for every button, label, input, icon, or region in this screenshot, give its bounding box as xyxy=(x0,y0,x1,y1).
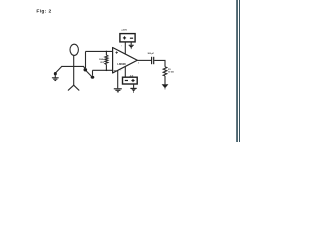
wire: run to op-amp - input xyxy=(93,69,113,71)
svg-text:300 µF: 300 µF xyxy=(147,53,154,55)
battery B2 (-4.5 V) xyxy=(123,77,138,84)
wire: battery B2 to arrow ground xyxy=(133,84,135,88)
wire: V- pin xyxy=(124,67,126,78)
ground (left hand) xyxy=(52,78,59,81)
pin + mark xyxy=(115,51,118,54)
page edge line outer xyxy=(236,0,238,142)
wire: battery B1 to ground xyxy=(130,42,132,45)
svg-text:Fig: 2: Fig: 2 xyxy=(36,9,51,15)
wire: terminal B up to minus run xyxy=(92,70,94,75)
op-amp U1 xyxy=(113,48,138,74)
battery B1 (+4.5 V) xyxy=(120,34,135,42)
wire: top run to op-amp + input xyxy=(86,50,113,52)
electrode terminal B (right hand lower) xyxy=(91,76,95,79)
ground (battery B1) xyxy=(129,44,134,46)
resistor R1 xyxy=(163,67,167,85)
wire: terminal A up xyxy=(85,51,87,68)
person left forearm xyxy=(56,66,62,72)
wire: left terminal to ground xyxy=(54,75,56,77)
electrode terminal (left hand) xyxy=(54,72,57,75)
battery B2 minus mark xyxy=(125,80,128,82)
pin - mark xyxy=(114,70,117,72)
wire: output to capacitor xyxy=(137,59,151,61)
svg-text:4: 4 xyxy=(120,70,121,72)
svg-text:RG: RG xyxy=(101,62,105,64)
person right hand bend xyxy=(83,66,84,68)
svg-text:+4.5V: +4.5V xyxy=(121,29,127,32)
svg-text:10 kΩ: 10 kΩ xyxy=(168,72,174,74)
svg-text:LM628: LM628 xyxy=(117,62,126,66)
wire: V+ pin xyxy=(124,42,126,54)
figure caption "Fig: 2" xyxy=(36,9,51,15)
person right leg xyxy=(74,85,79,90)
capacitor C1 300 uF xyxy=(152,57,154,64)
svg-text:7: 7 xyxy=(121,45,122,47)
ground (op-amp) xyxy=(114,89,122,92)
person head xyxy=(70,44,78,55)
wire: terminal A to terminal B diagonal xyxy=(86,71,91,76)
battery B1 plus mark xyxy=(123,36,126,39)
resistor RG (across inputs) xyxy=(105,51,108,70)
electrode terminal A (right hand upper) xyxy=(84,68,88,71)
wire: capacitor to resistor R1 xyxy=(154,60,165,66)
ground arrow (battery B2) xyxy=(130,87,136,89)
battery B2 plus mark xyxy=(131,79,134,82)
person left leg xyxy=(68,85,73,90)
person arms xyxy=(62,65,84,67)
battery B1 minus mark xyxy=(130,37,133,39)
wire: op-amp to ground stem xyxy=(117,70,119,88)
ground arrow (R1) xyxy=(162,84,169,88)
node: RG bottom junction xyxy=(106,70,108,72)
page edge line inner xyxy=(239,0,240,142)
person body xyxy=(73,55,75,85)
node: RG top junction xyxy=(106,51,108,53)
